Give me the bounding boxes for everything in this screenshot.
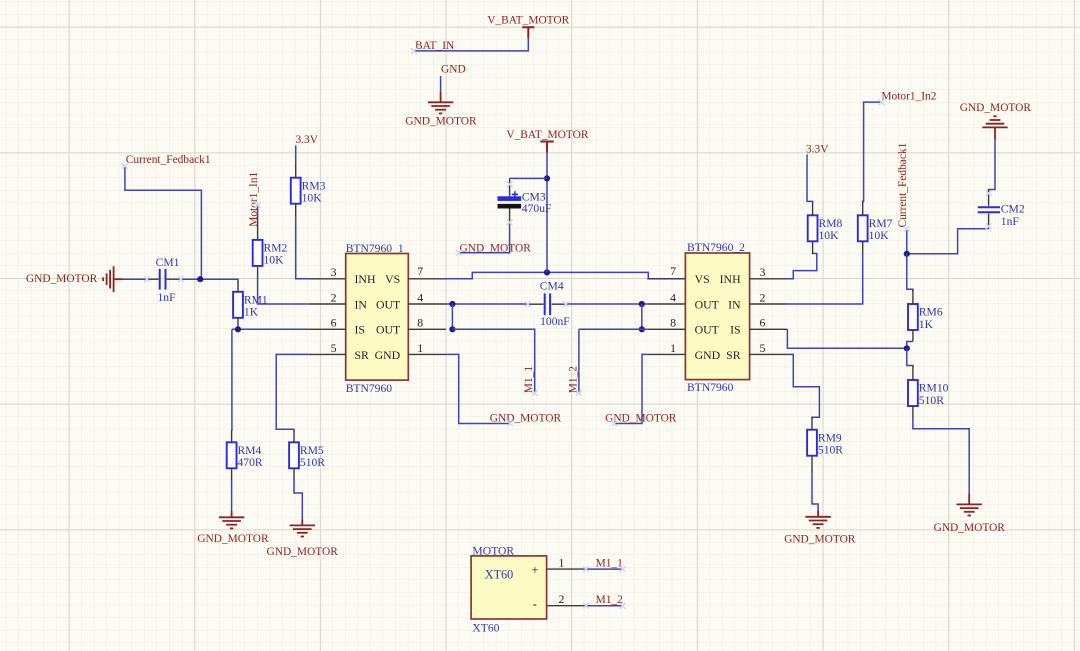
svg-text:GND_MOTOR: GND_MOTOR: [490, 413, 562, 425]
svg-text:RM4: RM4: [238, 444, 262, 457]
svg-text:CM1: CM1: [156, 256, 180, 269]
svg-text:1: 1: [417, 341, 423, 355]
wire pin7 VS bus: [446, 272, 685, 278]
svg-text:5: 5: [331, 341, 337, 355]
U2 right pin stubs (3,2,6,5): [750, 279, 788, 355]
svg-text:10K: 10K: [264, 254, 285, 267]
wire RM3 to pin 3: [296, 216, 309, 279]
svg-text:MOTOR: MOTOR: [472, 545, 514, 558]
wire U2 pin3 to RM8: [787, 252, 816, 279]
svg-text:GND_MOTOR: GND_MOTOR: [26, 273, 98, 285]
junction pin8 right: [639, 326, 645, 332]
svg-text:1nF: 1nF: [1001, 215, 1020, 228]
wire ground to CM1: [123, 278, 148, 280]
svg-text:+: +: [531, 562, 538, 577]
svg-text:Motor1_In2: Motor1_In2: [881, 91, 936, 103]
wire CM2 to Current_Fedback1 node: [907, 229, 989, 254]
U2 left pin stubs (7,4,8,1): [647, 279, 685, 355]
driver U2 BTN7960_2: [685, 253, 749, 380]
svg-text:M1_2: M1_2: [596, 594, 624, 606]
resistor RM5 510R: [293, 431, 295, 443]
svg-text:XT60: XT60: [485, 567, 513, 581]
svg-text:2: 2: [760, 290, 766, 304]
open wire end markers: [411, 48, 417, 54]
wire M1_1 (J1 pin1): [585, 568, 622, 570]
resistor RM9 510R: [811, 418, 813, 430]
J1 pin stubs 1,2: [547, 569, 586, 606]
svg-text:510R: 510R: [300, 456, 325, 469]
svg-text:GND_MOTOR: GND_MOTOR: [960, 102, 1032, 114]
op-amp/driver U1 BTN7960_1: [346, 254, 409, 381]
svg-text:7: 7: [670, 264, 676, 278]
wire pin4 row right: [566, 303, 647, 305]
wire U1 pin5 to RM5: [276, 354, 308, 432]
svg-text:RM10: RM10: [919, 382, 949, 395]
wire 3.3V to RM8: [807, 154, 813, 203]
svg-text:OUT: OUT: [376, 323, 401, 337]
svg-text:BTN7960: BTN7960: [687, 381, 734, 394]
resistor RM1 1K: [237, 282, 239, 292]
svg-text:CM4: CM4: [540, 280, 564, 293]
wire pin8 right to M1_2: [579, 329, 647, 392]
svg-text:V_BAT_MOTOR: V_BAT_MOTOR: [487, 14, 569, 26]
svg-text:Current_Fedback1: Current_Fedback1: [897, 142, 909, 227]
capacitor CM2 1nF: [988, 190, 990, 206]
resistor RM2 10K: [257, 217, 259, 240]
wire node to RM6: [907, 254, 913, 291]
svg-text:RM2: RM2: [264, 242, 288, 255]
svg-text:CM2: CM2: [1001, 202, 1025, 215]
junction VS bus / V_BAT: [544, 269, 550, 275]
svg-text:8: 8: [670, 316, 676, 330]
junction pin4 right: [639, 301, 645, 307]
power port GND_MOTOR (below RM4): [219, 516, 244, 518]
svg-text:10K: 10K: [302, 192, 323, 205]
capacitor CM3 470uF (polarized): [509, 178, 511, 196]
svg-text:BTN7960_1: BTN7960_1: [346, 242, 404, 255]
U1 right pin stubs (pins 7,4,8,1): [408, 279, 446, 355]
wire ground to CM2: [989, 139, 995, 191]
svg-text:1K: 1K: [919, 318, 934, 331]
wire U2 pin5 to RM9: [787, 354, 819, 419]
wire Current_Fedback1 stub: [906, 229, 908, 254]
svg-text:4: 4: [417, 290, 423, 304]
power port GND_MOTOR (bottom right): [957, 503, 982, 505]
wire V_BAT down: [546, 152, 548, 272]
junction pin8 left: [449, 326, 455, 332]
wire CM1 to node A / RM1: [181, 279, 238, 283]
capacitor CM1 1nF: [147, 278, 159, 280]
svg-text:GND_MOTOR: GND_MOTOR: [460, 242, 532, 254]
svg-text:1K: 1K: [244, 306, 259, 319]
wire RM5 to ground: [294, 480, 302, 520]
svg-text:4: 4: [670, 290, 676, 304]
wire RM9 to ground: [812, 471, 818, 511]
svg-text:M1_2: M1_2: [567, 366, 579, 394]
svg-text:5: 5: [760, 341, 766, 355]
wire pin8 to M1_1: [452, 329, 534, 392]
svg-text:RM5: RM5: [300, 444, 324, 457]
svg-text:SR: SR: [726, 348, 741, 362]
svg-text:VS: VS: [695, 272, 710, 286]
svg-text:3.3V: 3.3V: [806, 143, 829, 155]
svg-text:6: 6: [331, 316, 337, 330]
wire BAT_IN net: [414, 38, 528, 51]
svg-text:3: 3: [331, 265, 337, 279]
svg-text:2: 2: [559, 592, 565, 606]
resistor RM6 1K: [912, 290, 914, 305]
svg-text:GND_MOTOR: GND_MOTOR: [405, 115, 477, 127]
svg-text:BAT_IN: BAT_IN: [415, 40, 454, 52]
svg-text:7: 7: [417, 264, 423, 278]
svg-text:GND_MOTOR: GND_MOTOR: [934, 522, 1006, 534]
wire branch to CM3: [510, 177, 547, 179]
resistor RM4 470R: [231, 430, 233, 442]
svg-text:OUT: OUT: [695, 323, 720, 337]
junction below RM1: [235, 326, 241, 332]
junction pin4 left: [449, 301, 455, 307]
svg-text:M1_1: M1_1: [523, 366, 535, 394]
connector J1 XT60 / MOTOR: [471, 556, 546, 619]
svg-text:Current_Fedback1: Current_Fedback1: [126, 154, 211, 166]
wire Motor1_In2 to RM7: [863, 102, 882, 203]
wire U2 pin6 IS to node: [787, 329, 906, 348]
svg-text:SR: SR: [355, 348, 370, 362]
wire RM1 bottom to pin6 row: [232, 328, 308, 330]
svg-text:VS: VS: [385, 272, 400, 286]
svg-text:RM6: RM6: [919, 306, 943, 319]
wire Motor1_In1 stub: [257, 205, 259, 218]
wire U2 pin1 to GND_MOTOR label: [614, 354, 647, 423]
svg-text:INH: INH: [720, 272, 741, 286]
svg-text:510R: 510R: [919, 394, 944, 407]
wire jumper pins 4-8 right: [641, 304, 643, 329]
svg-text:M1_1: M1_1: [596, 558, 624, 570]
power port GND_MOTOR (below RM9): [805, 516, 830, 518]
wire CM3 to GND_MOTOR stub: [459, 223, 510, 253]
svg-text:1: 1: [559, 556, 565, 570]
svg-text:GND_MOTOR: GND_MOTOR: [784, 533, 856, 545]
svg-text:BTN7960_2: BTN7960_2: [687, 241, 745, 254]
svg-text:GND: GND: [441, 64, 466, 76]
resistor RM7 10K: [862, 202, 864, 216]
wire 3.3V to RM3: [295, 145, 297, 165]
junction IS node: [904, 345, 910, 351]
wire pin4 row left: [446, 303, 528, 305]
power port GND_MOTOR (below RM5): [290, 524, 315, 526]
svg-text:470R: 470R: [238, 456, 263, 469]
wire RM10 to ground: [913, 417, 969, 494]
svg-text:OUT: OUT: [376, 297, 401, 311]
svg-text:2: 2: [331, 290, 337, 304]
wire M1_2 (J1 pin2): [585, 605, 622, 607]
svg-text:8: 8: [417, 316, 423, 330]
svg-text:IS: IS: [730, 323, 741, 337]
wire RM4 to ground: [231, 480, 233, 511]
resistor RM3 10K: [295, 165, 297, 178]
svg-text:470uF: 470uF: [522, 202, 552, 215]
svg-text:1nF: 1nF: [158, 291, 177, 304]
junction Current_Fedback1/CM2: [904, 251, 910, 257]
svg-text:GND: GND: [375, 348, 401, 362]
wire RM7 to U2 pin2: [787, 253, 862, 304]
junction V_BAT / CM3: [544, 175, 550, 181]
svg-text:RM7: RM7: [869, 217, 893, 230]
svg-text:RM8: RM8: [819, 217, 843, 230]
svg-text:XT60: XT60: [472, 622, 499, 635]
svg-text:OUT: OUT: [695, 297, 720, 311]
wire Current_Fedback1 to CM1 node: [125, 166, 201, 279]
svg-text:IN: IN: [355, 297, 368, 311]
svg-text:510R: 510R: [818, 444, 843, 457]
svg-text:3.3V: 3.3V: [296, 134, 319, 146]
wire U1 pin1 to GND_MOTOR label: [446, 354, 510, 423]
svg-text:1: 1: [670, 341, 676, 355]
svg-text:IS: IS: [355, 323, 366, 337]
svg-text:GND_MOTOR: GND_MOTOR: [267, 546, 339, 558]
capacitor CM4 100nF: [528, 303, 544, 305]
svg-text:100nF: 100nF: [540, 315, 570, 328]
resistor RM8 10K: [812, 241, 814, 254]
svg-text:10K: 10K: [869, 229, 890, 242]
U1 left pin stubs (pins 3,2,6,5): [308, 279, 346, 355]
svg-text:RM9: RM9: [818, 431, 842, 444]
wire down to RM4: [231, 329, 233, 431]
resistor RM10 510R: [912, 366, 914, 380]
svg-text:INH: INH: [355, 272, 376, 286]
svg-text:-: -: [533, 597, 537, 611]
wire RM2 to pin 2: [258, 278, 309, 304]
svg-text:GND: GND: [695, 348, 721, 362]
wire RM6 to IS node: [907, 342, 913, 349]
wire node to RM10: [907, 348, 913, 367]
svg-text:10K: 10K: [819, 229, 840, 242]
svg-text:IN: IN: [728, 297, 741, 311]
svg-text:BTN7960: BTN7960: [346, 382, 393, 395]
svg-text:3: 3: [760, 265, 766, 279]
wire jumper pins 4-8 left: [451, 304, 453, 329]
svg-text:GND_MOTOR: GND_MOTOR: [197, 533, 269, 545]
node A junction: [197, 276, 203, 282]
svg-text:V_BAT_MOTOR: V_BAT_MOTOR: [506, 129, 588, 141]
svg-text:RM3: RM3: [302, 179, 326, 192]
svg-text:6: 6: [760, 316, 766, 330]
